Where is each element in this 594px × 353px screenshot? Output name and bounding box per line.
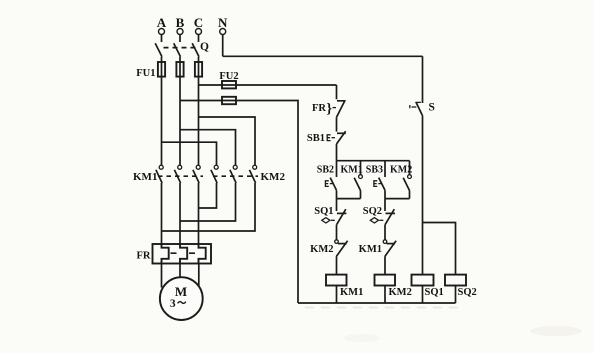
- thermal relay FR heater 3: [199, 244, 206, 264]
- pushbutton SB2 contact: [325, 161, 336, 199]
- wire N horizontal to S branch: [223, 55, 423, 57]
- wire SB1 to branch bus: [336, 144, 338, 161]
- scan artifact smudge bottom right: [530, 326, 582, 336]
- scan artifact ghost line under bus: [305, 307, 458, 309]
- svg-text:KM2: KM2: [310, 244, 333, 255]
- wire SQ1 to KM2 interlock: [336, 225, 338, 240]
- svg-text:SQ2: SQ2: [458, 287, 477, 298]
- svg-text:KM1: KM1: [340, 287, 363, 298]
- wire motor lead W: [198, 264, 200, 287]
- svg-text:KM1: KM1: [133, 171, 157, 183]
- wire phase A branch to contact 4: [162, 142, 217, 165]
- svg-text:KM2: KM2: [389, 287, 412, 298]
- wire phase A vertical: [161, 57, 163, 165]
- contact KM2 interlock NC: [335, 240, 348, 256]
- wire contact 1 to FR: [161, 183, 163, 244]
- svg-text:N: N: [218, 15, 228, 30]
- svg-text:3: 3: [170, 298, 176, 310]
- fuse FU1 pole A: [158, 62, 165, 77]
- wire N drop to switch S: [422, 56, 424, 103]
- wire motor lead U: [161, 264, 163, 288]
- svg-text:SQ2: SQ2: [363, 206, 382, 217]
- wire motor lead V: [179, 264, 181, 278]
- wire coil KM1 to bus: [336, 286, 338, 304]
- fuse FU2 upper: [222, 81, 236, 88]
- wire contact 4 swap to phase W: [199, 183, 217, 208]
- wire SQ2 to KM1 interlock: [384, 225, 386, 240]
- wire contact 6 swap to phase U: [162, 183, 256, 231]
- svg-text:KM2: KM2: [261, 171, 286, 183]
- wire branch to coil SQ2: [423, 223, 456, 275]
- wire phase B branch to contact 5: [180, 130, 236, 166]
- contact KM2 aux NO: [403, 161, 411, 199]
- wire bottom bus: [298, 302, 456, 304]
- contactor KM2 main contact 4: [211, 165, 218, 183]
- contactor KM1 main contact 3: [193, 165, 200, 183]
- svg-text:A: A: [157, 15, 167, 30]
- wire branch top bus: [337, 160, 410, 162]
- contact KM1 aux NO: [354, 161, 362, 199]
- svg-text:SQ1: SQ1: [425, 287, 444, 298]
- wire control return from phase B: [180, 101, 298, 304]
- svg-text:KM1: KM1: [341, 164, 363, 175]
- node N terminal: [218, 15, 228, 35]
- svg-text:FR: FR: [137, 251, 151, 262]
- thermal contact FR dash: [333, 107, 337, 109]
- pushbutton SB3 contact: [374, 161, 385, 199]
- wire C stub below terminal: [198, 35, 200, 43]
- scan artifact smudge bottom center: [344, 334, 380, 342]
- thermal relay FR box: [153, 244, 212, 264]
- svg-text:FR: FR: [312, 103, 326, 114]
- wire A stub below terminal: [161, 35, 163, 43]
- svg-text:FU1: FU1: [136, 68, 155, 79]
- switch Q pole 3 blade: [192, 43, 199, 57]
- wire control main drop: [336, 85, 338, 99]
- contactor KM2 main contact 6: [249, 165, 256, 183]
- contactor KM1 main contact 1: [156, 165, 163, 183]
- thermal relay FR heater 2: [180, 244, 187, 264]
- contactor KM1 linkage dashed: [158, 175, 203, 177]
- svg-text:B: B: [176, 15, 185, 30]
- svg-text:SB2: SB2: [317, 164, 334, 175]
- wire SB3 KM2 join bus: [385, 198, 410, 200]
- wire SB2 KM1 join bus: [337, 198, 361, 200]
- contact KM1 interlock NC: [383, 240, 396, 256]
- switch S blade and ticks: [410, 102, 423, 115]
- fuse FU1 pole C: [195, 62, 202, 77]
- wire contact 2 to FR: [179, 183, 181, 244]
- svg-text:SB1: SB1: [307, 133, 325, 144]
- wire to SQ1 contact: [336, 199, 338, 211]
- contactor KM2 linkage dashed: [213, 175, 258, 177]
- wire coil SQ2 to bus: [455, 286, 457, 304]
- coil KM2 box: [375, 275, 396, 286]
- node C terminal: [194, 15, 203, 35]
- limit switch SQ2 NC contact: [370, 209, 395, 225]
- wire contact 3 to FR: [198, 183, 200, 244]
- coil KM1 box: [326, 275, 347, 286]
- wire phase C vertical: [198, 57, 200, 165]
- node B terminal: [176, 15, 185, 35]
- thermal contact FR blade and tick: [337, 100, 346, 117]
- wire coil KM2 to bus: [384, 286, 386, 304]
- svg-text:S: S: [429, 102, 435, 114]
- wire S to coil SQ1: [422, 116, 424, 275]
- wire phase B vertical: [179, 57, 181, 165]
- wire KM2 interlock to coil KM1: [336, 256, 338, 274]
- wire control feed from phase C: [199, 84, 337, 86]
- limit switch SQ1 NC contact: [322, 209, 347, 225]
- svg-text:SB3: SB3: [366, 164, 383, 175]
- wire N stub below terminal: [222, 35, 224, 57]
- motor M circle: [160, 277, 203, 320]
- wire coil SQ1 to bus: [422, 286, 424, 304]
- fuse FU1 pole B: [176, 62, 183, 77]
- svg-text:C: C: [194, 15, 203, 30]
- switch Q linkage dashed: [164, 47, 197, 49]
- svg-text:SQ1: SQ1: [314, 206, 333, 217]
- fuse FU2 lower: [222, 97, 236, 104]
- coil SQ2 box: [445, 275, 466, 286]
- svg-text:M: M: [175, 284, 187, 299]
- svg-text:}: }: [327, 102, 333, 117]
- contactor KM2 main contact 5: [230, 165, 237, 183]
- switch Q pole 1 blade: [155, 43, 162, 57]
- wire to SQ2 contact: [384, 199, 386, 211]
- wire contact 5 swap to phase V: [180, 183, 236, 221]
- svg-text:Q: Q: [200, 41, 209, 53]
- coil SQ1 box: [412, 275, 434, 286]
- wire FR to SB1: [336, 117, 338, 131]
- wire B stub below terminal: [179, 35, 181, 43]
- thermal relay FR linkage dashes: [171, 252, 196, 254]
- contactor KM1 main contact 2: [174, 165, 181, 183]
- wire phase C branch to contact 6: [199, 117, 256, 165]
- wire KM1 interlock to coil KM2: [384, 256, 386, 274]
- node A terminal: [157, 15, 167, 35]
- pushbutton SB1 contact: [327, 131, 346, 144]
- thermal relay FR heater 1: [162, 244, 169, 264]
- switch Q pole 2 blade: [174, 43, 181, 57]
- svg-text:KM1: KM1: [359, 244, 382, 255]
